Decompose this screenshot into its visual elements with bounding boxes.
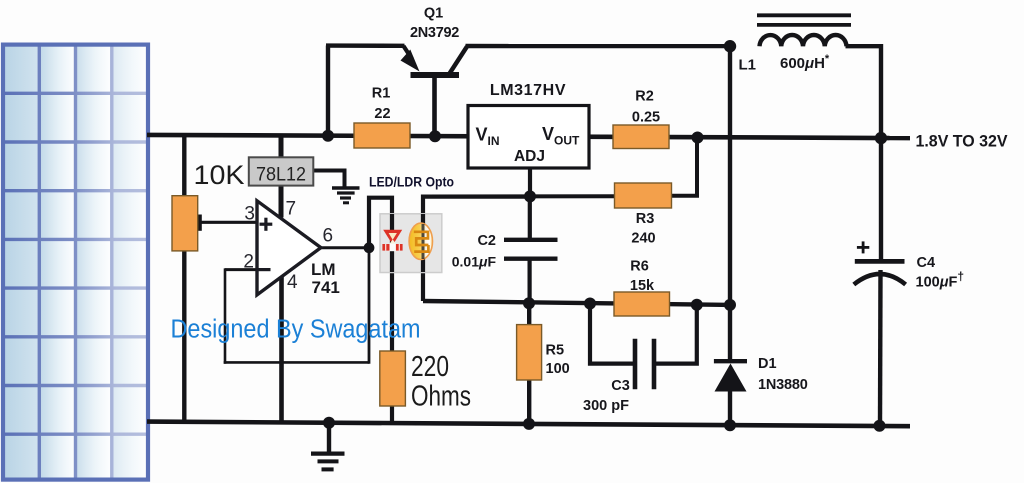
wire: D1 anode lead	[728, 390, 732, 426]
wire: R5 branch through to bottom rail	[527, 303, 531, 424]
wire: C2 top lead	[528, 196, 532, 240]
svg-text:10K: 10K	[194, 160, 245, 190]
wire: LDR lead through gray box	[421, 214, 425, 272]
wire: feedback loop right vertical	[368, 246, 371, 364]
svg-text:Designed By Swagatam: Designed By Swagatam	[171, 316, 421, 344]
svg-text:R3: R3	[636, 211, 655, 227]
wire: switching node long vertical (L1 left to D1)	[728, 46, 732, 361]
node: switching node mid rail	[724, 299, 736, 311]
wire: bottom ground rail	[147, 422, 910, 427]
wire: R2 output junction vertical to R3	[695, 137, 699, 196]
wire: mid rail (LDR bottom to switching node)	[423, 301, 731, 305]
wire: op-amp pin4 lead	[279, 277, 284, 424]
node: C4 bottom	[874, 420, 886, 432]
ground symbol near 78L12	[332, 188, 360, 203]
wire: op-amp pin7 lead	[279, 185, 284, 218]
capacitor C4 plus sign	[857, 241, 869, 253]
LDR icon	[409, 223, 432, 259]
diode D1 triangle	[715, 364, 747, 392]
wire: Q1 base vertical	[432, 75, 437, 136]
node: R2 right output	[692, 132, 704, 144]
wire: ADJ pin lead	[528, 166, 532, 197]
wire: C3 right lead	[656, 305, 697, 364]
transistor Q1 collector diagonal	[450, 47, 468, 74]
svg-text:LED/LDR Opto: LED/LDR Opto	[369, 174, 454, 189]
inductor L1 winding	[760, 35, 847, 46]
node: L1 left	[724, 40, 736, 52]
node: R5 top	[523, 297, 535, 309]
wire: feedback loop left vertical	[224, 268, 227, 363]
wire: ADJ node horizontal (LDR to R3)	[423, 194, 615, 198]
wire: LED lead through gray box	[390, 214, 394, 272]
svg-text:3: 3	[244, 204, 255, 225]
inductor L1 core bars	[757, 13, 851, 17]
wire: top left horizontal to Q1 emitter	[326, 43, 405, 48]
wire: C3 left lead	[590, 304, 634, 364]
svg-text:600μH*: 600μH*	[780, 53, 830, 72]
LED icon	[382, 230, 402, 251]
wire: C4 bottom lead	[878, 270, 883, 426]
capacitor C3 left plate	[633, 339, 638, 389]
capacitor C2 top plate	[504, 238, 558, 242]
svg-text:R6: R6	[630, 258, 649, 274]
wire: 220 ohm bottom lead	[390, 404, 394, 424]
wire: pot branch vertical	[182, 135, 186, 423]
diode D1 cathode bar	[714, 359, 747, 363]
svg-text:C4: C4	[917, 255, 936, 271]
svg-text:6: 6	[323, 226, 334, 247]
wire: L1 right lead down to output node	[846, 46, 882, 139]
wire: op-amp wiper to pin3	[199, 221, 258, 224]
resistor R2	[613, 125, 669, 149]
capacitor C2 bottom plate	[504, 257, 558, 261]
opto coupler gray box	[380, 214, 442, 273]
wire: LED branch up and over	[369, 198, 392, 352]
op-amp minus symbol	[259, 268, 271, 271]
node: C3 right / R6 right	[691, 299, 703, 311]
node: ADJ junction	[524, 190, 536, 202]
regulator U3 78L12 box	[249, 157, 313, 185]
svg-text:C3: C3	[611, 378, 630, 394]
potentiometer 10K body	[172, 196, 198, 251]
svg-text:1N3880: 1N3880	[758, 377, 808, 393]
transistor Q1 base bar	[411, 72, 460, 78]
ground symbol bottom	[311, 423, 345, 469]
svg-text:15k: 15k	[630, 278, 655, 294]
resistor R1	[354, 123, 410, 148]
wire: output node down to C4 top plate	[879, 137, 883, 261]
wire: Q1 emitter branch up from rail	[326, 46, 330, 137]
svg-text:220: 220	[411, 351, 449, 383]
solar panel PV1	[3, 45, 148, 480]
svg-text:240: 240	[631, 231, 655, 247]
svg-text:L1: L1	[739, 57, 757, 74]
node: C3 left / R6 left	[584, 298, 596, 310]
svg-text:2N3792: 2N3792	[410, 25, 459, 41]
svg-text:D1: D1	[758, 356, 777, 372]
svg-text:R5: R5	[546, 343, 565, 359]
potentiometer wiper tick	[197, 215, 202, 231]
svg-text:R2: R2	[635, 88, 654, 104]
node: ground junction bottom rail	[323, 417, 335, 429]
wire: op-amp output pin6	[320, 246, 370, 249]
transistor Q1 emitter arrow	[401, 50, 420, 72]
node: output at L1 right	[875, 132, 887, 144]
svg-text:2: 2	[243, 252, 254, 273]
wire: C2 bottom lead	[527, 259, 531, 304]
node: op-amp output	[364, 242, 375, 253]
svg-text:0.25: 0.25	[632, 110, 660, 126]
svg-text:C2: C2	[477, 233, 496, 249]
svg-text:LM: LM	[311, 260, 336, 279]
svg-text:LM317HV: LM317HV	[490, 82, 566, 99]
svg-text:0.01μF: 0.01μF	[452, 253, 497, 269]
node: rail left of R1	[322, 130, 334, 142]
svg-text:R1: R1	[372, 86, 391, 102]
wire: feedback loop bottom	[224, 361, 369, 364]
node: R5 bottom	[523, 418, 535, 430]
resistor R5	[517, 325, 542, 380]
wire: pin2 stub	[225, 268, 258, 271]
capacitor C4 curved plate	[854, 274, 906, 285]
svg-text:ADJ: ADJ	[514, 148, 545, 165]
wire: R3 right lead	[669, 194, 699, 198]
svg-text:741: 741	[312, 278, 340, 297]
op-amp U1 LM741 triangle	[257, 201, 321, 295]
svg-text:1.8V TO 32V: 1.8V TO 32V	[916, 132, 1008, 150]
resistor R3	[615, 183, 672, 208]
transistor Q1 emitter diagonal	[404, 46, 413, 59]
wire: Q1 collector horizontal to L1 node	[466, 44, 732, 48]
wire: LDR branch vertical	[423, 197, 530, 301]
svg-text:Ohms: Ohms	[411, 381, 471, 413]
resistor R6	[614, 292, 670, 316]
svg-text:100: 100	[546, 361, 570, 377]
wire: 78L12 top lead	[279, 135, 284, 158]
capacitor C3 right plate	[652, 339, 657, 389]
regulator U2 LM317HV box	[468, 106, 589, 169]
wire: top positive rail	[147, 135, 910, 138]
svg-text:7: 7	[286, 199, 297, 220]
svg-text:4: 4	[287, 272, 298, 293]
node: D1 bottom	[724, 419, 736, 431]
svg-text:22: 22	[374, 106, 390, 122]
svg-text:Q1: Q1	[424, 6, 443, 22]
resistor 220 Ohms	[380, 351, 406, 406]
capacitor C4 top plate	[855, 259, 905, 264]
node: Q1 base / R1 right	[429, 130, 441, 142]
wire: 78L12 ground branch	[313, 171, 345, 187]
svg-text:300 pF: 300 pF	[583, 398, 629, 414]
svg-text:78L12: 78L12	[256, 165, 306, 186]
op-amp plus symbol	[260, 218, 273, 231]
